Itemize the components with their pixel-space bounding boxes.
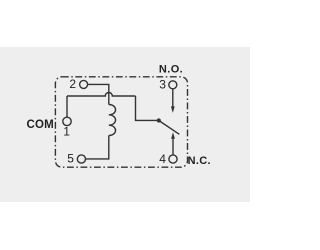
relay body outline (dash-dot) bbox=[55, 77, 187, 167]
N.C. arrow head (up) bbox=[171, 132, 175, 139]
terminal 2 circle bbox=[80, 80, 88, 88]
switch armature (movable contact blade) bbox=[159, 121, 180, 135]
svg-text:2: 2 bbox=[69, 77, 76, 91]
N.C. fixed contact arrow shaft bbox=[172, 139, 174, 155]
coil K1 bbox=[109, 105, 116, 136]
junction: switch pivot dot bbox=[157, 118, 161, 122]
wire: drop to switch pivot bbox=[136, 96, 158, 120]
svg-text:N.O.: N.O. bbox=[159, 63, 183, 75]
svg-text:4: 4 bbox=[159, 152, 166, 166]
wire: terminal 2 to coil top lead bbox=[88, 84, 109, 104]
terminal 1 circle (COM) bbox=[63, 117, 71, 125]
terminal 5 circle bbox=[77, 155, 85, 163]
svg-text:N.C.: N.C. bbox=[188, 155, 211, 167]
svg-text:1: 1 bbox=[63, 125, 70, 139]
terminal 3 circle (N.O.) bbox=[169, 81, 177, 89]
wire: coil bottom lead to terminal 5 bbox=[86, 136, 109, 159]
N.O. fixed contact arrow shaft bbox=[172, 89, 174, 107]
N.O. arrow head (down) bbox=[171, 106, 175, 113]
wire: COM feed with hop over coil lead bbox=[67, 93, 136, 96]
svg-text:5: 5 bbox=[67, 151, 74, 165]
svg-text:3: 3 bbox=[159, 78, 166, 92]
wire: terminal 1 riser bbox=[66, 96, 68, 117]
terminal 4 circle (N.C.) bbox=[169, 155, 177, 163]
svg-text:COM: COM bbox=[27, 119, 54, 131]
